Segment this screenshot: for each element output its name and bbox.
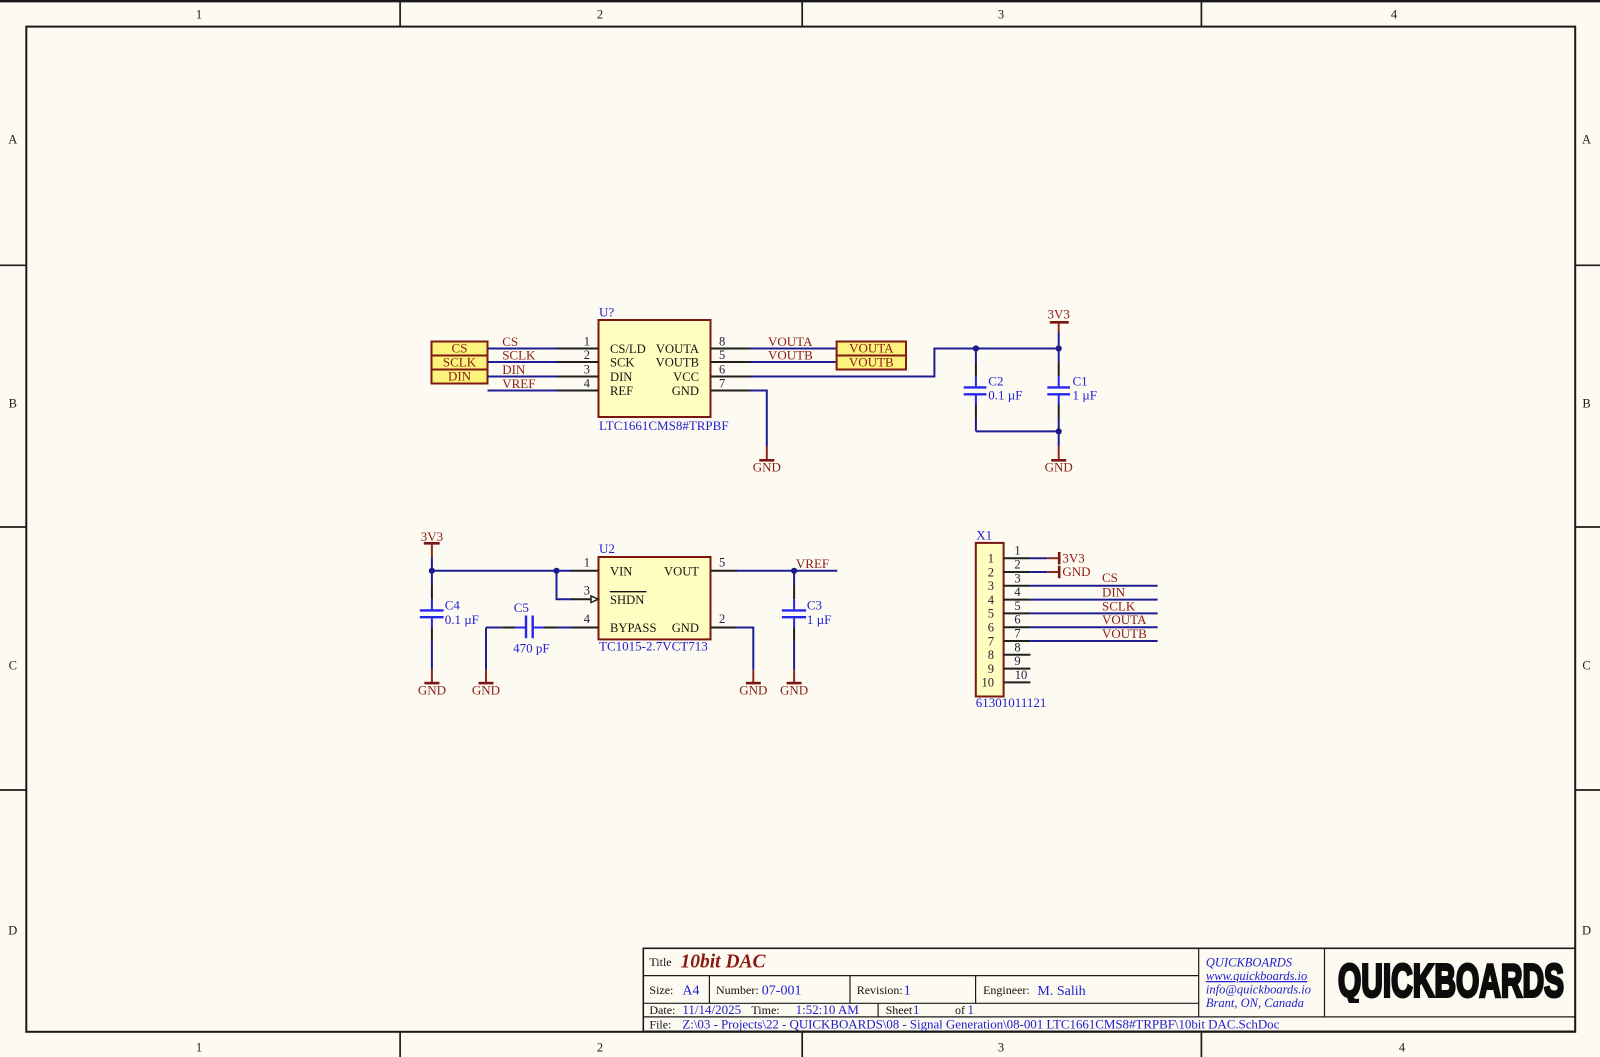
svg-text:C: C: [9, 659, 17, 673]
svg-text:GND: GND: [1045, 459, 1073, 474]
svg-text:Revision:: Revision:: [857, 983, 903, 997]
svg-text:Time:: Time:: [751, 1003, 779, 1017]
svg-text:SHDN: SHDN: [610, 593, 644, 607]
U? pin 7 GND: [672, 377, 752, 399]
title block: [643, 948, 1575, 1031]
svg-text:GND: GND: [418, 683, 446, 698]
svg-text:VOUTB: VOUTB: [1102, 626, 1147, 641]
svg-text:4: 4: [988, 593, 995, 607]
svg-text:11/14/2025: 11/14/2025: [682, 1002, 741, 1017]
svg-text:D: D: [8, 924, 17, 938]
wire VOUT to VREF: [737, 570, 837, 572]
port CS: [432, 341, 488, 356]
svg-text:SCLK: SCLK: [502, 348, 536, 363]
svg-text:4: 4: [1014, 585, 1021, 599]
svg-text:Title: Title: [649, 955, 671, 969]
capacitor C4 0.1uF: [420, 571, 479, 670]
svg-text:Number:: Number:: [716, 983, 759, 997]
X1 pin 9: [988, 654, 1031, 676]
svg-text:info@quickboards.io: info@quickboards.io: [1206, 983, 1311, 997]
IC U? LTC1661CMS8#TRPBF: [599, 305, 729, 434]
svg-text:8: 8: [719, 335, 725, 349]
svg-text:DIN: DIN: [610, 370, 632, 384]
wire C5 left to ground: [485, 628, 487, 670]
port SCLK: [432, 355, 488, 370]
svg-text:VOUTB: VOUTB: [849, 355, 894, 370]
ground C3: [780, 670, 808, 698]
svg-text:5: 5: [719, 555, 725, 569]
capacitor C1 1uF: [1047, 349, 1097, 432]
svg-text:6: 6: [1014, 613, 1020, 627]
svg-text:3V3: 3V3: [1062, 550, 1084, 565]
svg-text:SCLK: SCLK: [1102, 598, 1136, 613]
X1 pin 3: [988, 571, 1031, 593]
junction at C1 bottom: [1056, 428, 1062, 434]
wire CS to U? pin1: [488, 348, 559, 350]
svg-text:VOUTB: VOUTB: [656, 356, 699, 370]
svg-text:DIN: DIN: [502, 362, 526, 377]
svg-text:QUICKBOARDS: QUICKBOARDS: [1206, 956, 1293, 970]
U2 pin 2 GND: [672, 612, 738, 635]
svg-text:3V3: 3V3: [1048, 307, 1070, 322]
svg-text:1: 1: [913, 1002, 920, 1017]
ground C5: [472, 670, 500, 698]
X1 pin 6: [988, 613, 1031, 635]
svg-text:VOUTA: VOUTA: [1102, 612, 1147, 627]
svg-text:1: 1: [968, 1002, 975, 1017]
svg-text:A: A: [1582, 133, 1591, 147]
svg-text:9: 9: [988, 662, 994, 676]
svg-text:1: 1: [1014, 544, 1020, 558]
svg-text:4: 4: [584, 612, 591, 626]
svg-text:A4: A4: [682, 984, 699, 999]
svg-text:Date:: Date:: [649, 1003, 675, 1017]
svg-text:DIN: DIN: [448, 369, 472, 384]
wire SCLK to U? pin2: [488, 361, 559, 363]
svg-text:Z:\03 - Projects\22 - QUICKBOA: Z:\03 - Projects\22 - QUICKBOARDS\08 - S…: [682, 1017, 1279, 1032]
wire X1 pin5 SCLK: [1030, 612, 1157, 614]
U2 pin 5 VOUT: [664, 555, 738, 578]
svg-text:6: 6: [719, 363, 725, 377]
svg-text:7: 7: [988, 634, 994, 648]
svg-text:1: 1: [584, 555, 590, 569]
svg-text:5: 5: [719, 348, 725, 362]
svg-text:3: 3: [998, 1041, 1004, 1055]
svg-text:10: 10: [982, 676, 995, 690]
svg-text:GND: GND: [780, 683, 808, 698]
port VOUTA: [837, 341, 906, 356]
svg-text:M. Salih: M. Salih: [1037, 984, 1085, 999]
svg-text:2: 2: [597, 8, 603, 22]
wire 3V3 rail to U2 VIN: [432, 570, 572, 572]
wire C2 bottom rail: [976, 430, 1059, 432]
svg-text:C4: C4: [445, 597, 461, 612]
svg-text:10bit DAC: 10bit DAC: [681, 952, 767, 973]
power 3V3 (U? rail): [1048, 307, 1070, 349]
X1 pin 2: [988, 558, 1031, 580]
svg-text:Engineer:: Engineer:: [983, 983, 1030, 997]
svg-text:6: 6: [988, 621, 994, 635]
svg-text:1:52:10 AM: 1:52:10 AM: [796, 1002, 860, 1017]
ground U2 pin2: [739, 670, 767, 698]
svg-text:SCK: SCK: [610, 356, 635, 370]
svg-text:2: 2: [584, 348, 590, 362]
U? pin 3 DIN: [558, 363, 633, 385]
svg-text:1: 1: [988, 552, 994, 566]
X1 pin 8: [988, 640, 1031, 662]
svg-text:3: 3: [584, 584, 590, 598]
wire pin8 to port VOUTA: [751, 348, 837, 350]
svg-text:Brant, ON, Canada: Brant, ON, Canada: [1206, 996, 1304, 1010]
power 3V3 (U2 rail): [421, 529, 443, 571]
svg-text:C5: C5: [514, 600, 529, 615]
U? pin 2 SCK: [558, 348, 635, 370]
svg-text:B: B: [9, 397, 17, 411]
svg-text:GND: GND: [672, 384, 699, 398]
svg-text:Size:: Size:: [649, 983, 673, 997]
power 3V3 (X1): [1047, 550, 1084, 565]
U? pin 4 REF: [558, 377, 634, 399]
svg-text:B: B: [1582, 397, 1590, 411]
capacitor C2 0.1uF: [964, 349, 1023, 432]
U? pin 5 VOUTB: [656, 348, 752, 370]
U? pin 8 VOUTA: [656, 335, 752, 357]
svg-text:07-001: 07-001: [762, 984, 802, 999]
junction at C1 top: [1056, 345, 1062, 351]
svg-text:3: 3: [1014, 571, 1020, 585]
svg-text:CS: CS: [452, 341, 468, 356]
svg-text:C3: C3: [807, 597, 822, 612]
ground C4: [418, 669, 446, 697]
X1 pin 4: [988, 585, 1031, 607]
svg-text:LTC1661CMS8#TRPBF: LTC1661CMS8#TRPBF: [599, 418, 729, 433]
junction SHDN branch: [553, 568, 559, 574]
ground U? pin7: [753, 447, 781, 475]
svg-text:3: 3: [998, 8, 1004, 22]
svg-text:7: 7: [719, 377, 725, 391]
port DIN: [432, 369, 488, 384]
svg-text:VOUTA: VOUTA: [656, 342, 699, 356]
svg-text:VOUTB: VOUTB: [768, 348, 813, 363]
ground C1 rail: [1045, 431, 1073, 474]
port VOUTB: [837, 355, 906, 370]
svg-text:3: 3: [988, 579, 994, 593]
svg-text:1 µF: 1 µF: [1073, 388, 1097, 403]
capacitor C5 470pF: [486, 600, 572, 655]
svg-text:VREF: VREF: [502, 376, 535, 391]
svg-text:5: 5: [988, 607, 994, 621]
svg-text:1 µF: 1 µF: [807, 612, 831, 627]
svg-text:GND: GND: [753, 459, 781, 474]
svg-text:10: 10: [1015, 668, 1028, 682]
svg-text:1: 1: [904, 984, 911, 999]
junction at C2 top: [973, 345, 979, 351]
svg-text:0.1 µF: 0.1 µF: [445, 612, 479, 627]
svg-text:U?: U?: [599, 305, 614, 320]
wire pin7 to ground: [751, 391, 767, 447]
svg-text:CS: CS: [1102, 570, 1118, 585]
X1 pin 1: [988, 544, 1031, 566]
svg-text:3V3: 3V3: [421, 529, 443, 544]
svg-text:U2: U2: [599, 541, 615, 556]
svg-text:VOUTA: VOUTA: [849, 341, 894, 356]
svg-text:Sheet: Sheet: [886, 1003, 913, 1017]
svg-text:A: A: [8, 133, 17, 147]
wire U2 GND pin to ground: [737, 628, 753, 670]
svg-text:VIN: VIN: [610, 565, 632, 579]
svg-text:GND: GND: [739, 683, 767, 698]
svg-text:DIN: DIN: [1102, 585, 1126, 600]
capacitor C3 1uF: [782, 571, 831, 670]
connector X1 61301011121: [976, 528, 1047, 710]
X1 pin 5: [988, 599, 1031, 621]
wire SHDN branch: [557, 571, 573, 599]
svg-text:1: 1: [584, 335, 590, 349]
svg-text:3: 3: [584, 363, 590, 377]
svg-text:1: 1: [196, 8, 202, 22]
wire pin5 to port VOUTB: [751, 361, 837, 363]
svg-text:C: C: [1582, 659, 1590, 673]
svg-text:QUICKBOARDS: QUICKBOARDS: [1338, 955, 1564, 1007]
U? pin 1 CS/LD: [558, 335, 646, 357]
wire X1 pin1 to 3V3: [1030, 557, 1047, 559]
svg-text:www.quickboards.io: www.quickboards.io: [1206, 969, 1307, 983]
svg-text:470 pF: 470 pF: [513, 640, 549, 655]
wire DIN to U? pin3: [488, 376, 559, 378]
X1 pin 10: [982, 668, 1031, 690]
wire X1 pin4 DIN: [1030, 599, 1157, 601]
junction 3V3 / C4: [429, 568, 435, 574]
svg-text:2: 2: [1014, 558, 1020, 572]
U2 pin 3 SHDN: [571, 584, 646, 607]
svg-text:8: 8: [1014, 640, 1020, 654]
svg-text:4: 4: [1391, 8, 1398, 22]
svg-text:8: 8: [988, 648, 994, 662]
svg-text:GND: GND: [1062, 564, 1090, 579]
wire X1 pin6 VOUTA: [1030, 626, 1157, 628]
svg-text:0.1 µF: 0.1 µF: [988, 388, 1022, 403]
svg-text:7: 7: [1014, 627, 1020, 641]
svg-text:X1: X1: [976, 528, 992, 543]
IC U2 TC1015-2.7VCT713: [599, 541, 711, 654]
svg-text:2: 2: [719, 612, 725, 626]
svg-text:4: 4: [584, 377, 591, 391]
wire X1 pin7 VOUTB: [1030, 640, 1157, 642]
U2 pin 4 BYPASS: [571, 612, 656, 635]
junction C3: [791, 568, 797, 574]
svg-text:BYPASS: BYPASS: [610, 621, 656, 635]
wire VCC rail: [751, 349, 1059, 377]
U? pin 6 VCC: [673, 363, 751, 385]
svg-text:2: 2: [597, 1041, 603, 1055]
svg-text:File:: File:: [649, 1017, 671, 1031]
svg-text:C2: C2: [988, 374, 1003, 389]
svg-text:VREF: VREF: [796, 556, 829, 571]
svg-text:of: of: [955, 1003, 965, 1017]
wire X1 pin2 to GND: [1030, 571, 1047, 573]
X1 pin 7: [988, 627, 1031, 649]
svg-text:CS/LD: CS/LD: [610, 342, 646, 356]
svg-text:C1: C1: [1073, 374, 1088, 389]
wire VREF to U? pin4: [488, 390, 559, 392]
svg-text:SCLK: SCLK: [443, 355, 477, 370]
svg-text:VOUT: VOUT: [664, 565, 699, 579]
svg-text:GND: GND: [472, 683, 500, 698]
U2 pin 1 VIN: [571, 555, 632, 578]
svg-text:4: 4: [1399, 1041, 1406, 1055]
svg-text:61301011121: 61301011121: [976, 695, 1047, 710]
svg-text:TC1015-2.7VCT713: TC1015-2.7VCT713: [599, 639, 708, 654]
ground GND (X1 bar style): [1047, 564, 1090, 579]
svg-text:9: 9: [1014, 654, 1020, 668]
wire X1 pin3 CS: [1030, 585, 1157, 587]
svg-text:VCC: VCC: [673, 370, 699, 384]
svg-text:2: 2: [988, 565, 994, 579]
svg-text:D: D: [1582, 924, 1591, 938]
svg-text:REF: REF: [610, 384, 633, 398]
svg-text:5: 5: [1014, 599, 1020, 613]
svg-text:GND: GND: [672, 621, 699, 635]
svg-text:1: 1: [196, 1041, 202, 1055]
